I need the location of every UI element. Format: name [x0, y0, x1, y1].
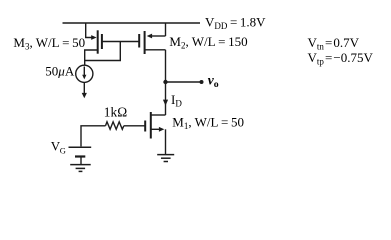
- wire M3 drain: [85, 50, 98, 65]
- transistor M2: [139, 31, 165, 54]
- wire current source output arrow: [82, 82, 87, 98]
- wire M3 source to VDD: [86, 23, 92, 38]
- wire VG to resistor: [81, 126, 106, 147]
- wire M2 drain to node vo: [145, 50, 166, 115]
- wire M1 source to ground: [165, 129, 167, 154]
- resistor R 1k: [106, 122, 124, 130]
- wire vo output stub: [166, 81, 202, 83]
- svg-text:M1, W/L = 50: M1, W/L = 50: [172, 114, 244, 131]
- svg-text:50μA: 50μA: [45, 63, 75, 78]
- wire M2 source to VDD: [165, 23, 167, 36]
- wire M3 gate-drain diode connection: [85, 42, 121, 61]
- battery VG: [69, 147, 92, 164]
- svg-text:1kΩ: 1kΩ: [104, 105, 127, 120]
- ground (M1 source): [157, 155, 174, 162]
- wire M3 gate to M2 gate: [102, 41, 139, 43]
- wire VDD rail: [63, 22, 201, 24]
- svg-text:M2, W/L = 150: M2, W/L = 150: [169, 34, 247, 51]
- svg-text:VG: VG: [51, 139, 66, 156]
- ground (VG): [70, 165, 91, 172]
- svg-text:vo: vo: [208, 72, 219, 89]
- transistor M1: [145, 112, 165, 139]
- current source I1 50uA: [76, 65, 93, 82]
- svg-text:M3, W/L = 50: M3, W/L = 50: [13, 35, 85, 52]
- wire resistor to M1 gate: [124, 125, 145, 127]
- svg-text:ID: ID: [171, 92, 182, 109]
- transistor M3: [91, 30, 102, 53]
- node vo terminal dot: [200, 80, 204, 84]
- current arrow ID: [163, 100, 168, 106]
- svg-text:VDD = 1.8V: VDD = 1.8V: [205, 15, 266, 32]
- junction node vo: [163, 80, 167, 84]
- svg-text:Vtp = −0.75V: Vtp = −0.75V: [308, 50, 374, 67]
